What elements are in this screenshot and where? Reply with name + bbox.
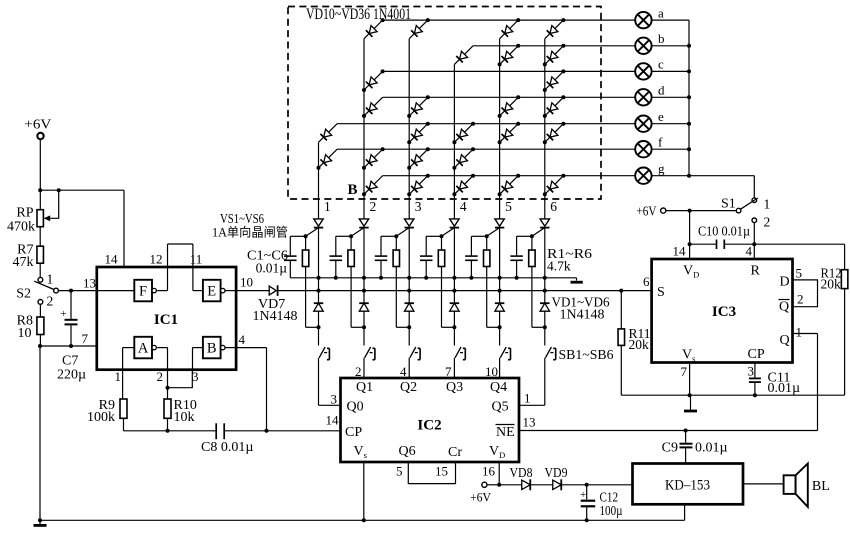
svg-text:470k: 470k [7, 220, 35, 235]
svg-text:S2: S2 [16, 287, 31, 302]
svg-text:b: b [658, 31, 665, 46]
svg-text:1A单向晶闸管: 1A单向晶闸管 [212, 225, 288, 240]
svg-text:2: 2 [355, 364, 362, 379]
svg-text:10k: 10k [174, 410, 195, 425]
svg-text:13: 13 [83, 276, 96, 291]
svg-text:f: f [658, 134, 663, 149]
svg-text:+6V: +6V [24, 116, 51, 131]
svg-text:C7: C7 [62, 354, 78, 369]
svg-text:6: 6 [550, 199, 557, 214]
svg-text:47k: 47k [13, 255, 34, 270]
svg-text:7: 7 [681, 364, 688, 379]
svg-text:Q: Q [779, 300, 789, 315]
svg-text:10: 10 [485, 364, 498, 379]
svg-text:7: 7 [445, 364, 452, 379]
svg-text:+6V: +6V [470, 490, 492, 505]
svg-text:VD8: VD8 [510, 466, 533, 481]
svg-text:D: D [780, 275, 790, 290]
svg-text:100µ: 100µ [600, 504, 623, 519]
svg-text:4: 4 [746, 244, 753, 259]
svg-text:1: 1 [324, 199, 331, 214]
svg-text:1: 1 [764, 197, 771, 212]
svg-text:3: 3 [748, 364, 755, 379]
svg-text:B: B [207, 341, 217, 357]
svg-text:3: 3 [192, 369, 199, 384]
svg-text:SB1~SB6: SB1~SB6 [559, 348, 614, 363]
svg-text:0.01µ: 0.01µ [256, 261, 288, 276]
svg-text:Q3: Q3 [446, 380, 463, 395]
svg-text:Q1: Q1 [356, 380, 373, 395]
svg-text:IC1: IC1 [154, 312, 178, 328]
svg-text:d: d [658, 83, 665, 98]
svg-text:c: c [658, 57, 664, 72]
svg-text:2: 2 [157, 369, 164, 384]
svg-text:S: S [657, 285, 665, 300]
svg-text:R: R [751, 264, 761, 279]
svg-text:1: 1 [524, 391, 531, 406]
svg-text:F: F [139, 284, 147, 300]
svg-text:15: 15 [435, 464, 448, 479]
svg-text:1: 1 [796, 325, 803, 340]
svg-text:1N4148: 1N4148 [253, 308, 298, 323]
svg-text:B: B [348, 182, 358, 198]
svg-text:1: 1 [47, 272, 54, 287]
svg-text:Cr: Cr [448, 445, 462, 460]
svg-text:3: 3 [415, 199, 422, 214]
svg-text:A: A [138, 341, 149, 357]
svg-text:5: 5 [796, 266, 803, 281]
svg-text:2: 2 [764, 215, 771, 230]
svg-text:+: + [60, 308, 66, 320]
svg-text:Q2: Q2 [400, 380, 417, 395]
svg-text:g: g [658, 161, 665, 176]
svg-text:13: 13 [523, 415, 536, 430]
svg-text:100k: 100k [87, 410, 115, 425]
svg-text:+: + [580, 489, 586, 501]
svg-text:0.01µ: 0.01µ [695, 441, 728, 456]
svg-text:20k: 20k [629, 337, 650, 352]
svg-text:4: 4 [239, 332, 246, 347]
svg-text:CP: CP [748, 347, 765, 362]
svg-text:Q6: Q6 [399, 444, 416, 459]
svg-text:6: 6 [643, 274, 650, 289]
svg-text:10: 10 [240, 275, 253, 290]
svg-text:11: 11 [190, 252, 203, 267]
svg-text:2: 2 [370, 199, 377, 214]
svg-text:NE: NE [496, 425, 515, 440]
svg-text:Q0: Q0 [347, 400, 364, 415]
svg-text:1N4148: 1N4148 [560, 307, 605, 322]
svg-text:CP: CP [345, 425, 362, 440]
svg-text:3: 3 [331, 392, 338, 407]
svg-text:C9: C9 [662, 441, 678, 456]
svg-text:Q5: Q5 [492, 400, 509, 415]
svg-text:IC3: IC3 [712, 304, 736, 320]
svg-text:KD–153: KD–153 [665, 478, 710, 494]
svg-text:16: 16 [482, 464, 496, 479]
svg-text:C10 0.01µ: C10 0.01µ [698, 225, 750, 240]
svg-text:14: 14 [673, 244, 687, 259]
svg-text:12: 12 [150, 252, 163, 267]
svg-text:E: E [207, 284, 216, 300]
svg-text:e: e [658, 109, 664, 124]
svg-text:Q: Q [780, 333, 790, 348]
svg-text:7: 7 [82, 331, 89, 346]
svg-text:Q4: Q4 [490, 380, 507, 395]
svg-text:1: 1 [115, 369, 122, 384]
svg-text:4: 4 [400, 364, 407, 379]
svg-text:+6V: +6V [637, 204, 657, 219]
svg-text:5: 5 [505, 199, 512, 214]
svg-text:20k: 20k [821, 277, 842, 292]
svg-text:5: 5 [396, 464, 403, 479]
svg-text:C8 0.01µ: C8 0.01µ [201, 440, 253, 455]
svg-text:4.7k: 4.7k [547, 259, 571, 274]
svg-text:2: 2 [797, 292, 804, 307]
svg-text:RP: RP [16, 206, 33, 221]
svg-text:VD9: VD9 [545, 466, 568, 481]
svg-text:2: 2 [47, 294, 54, 309]
svg-text:IC2: IC2 [417, 418, 441, 434]
svg-text:10: 10 [18, 326, 32, 341]
svg-text:a: a [658, 5, 664, 20]
svg-text:220µ: 220µ [57, 368, 86, 383]
svg-text:BL: BL [812, 479, 830, 494]
svg-text:14: 14 [326, 413, 340, 428]
svg-text:S1: S1 [721, 197, 736, 212]
svg-text:4: 4 [460, 199, 467, 214]
svg-text:14: 14 [105, 252, 119, 267]
svg-text:0.01µ: 0.01µ [768, 381, 801, 396]
